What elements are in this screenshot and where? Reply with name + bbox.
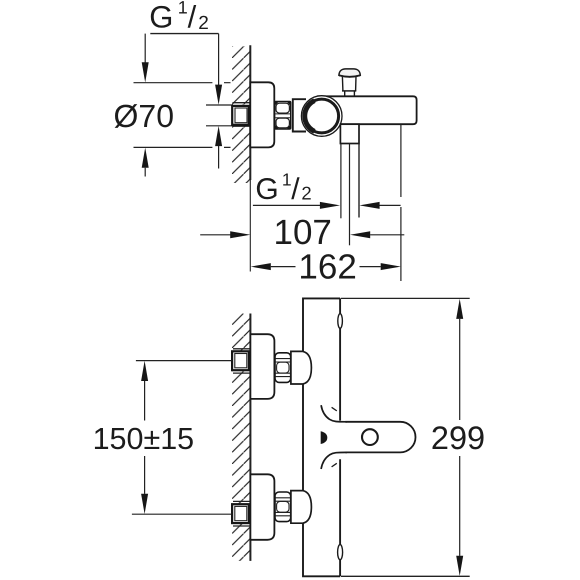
wall union square [232,106,249,125]
svg-text:2: 2 [301,183,311,204]
G1/2 (hose) dim line with arrows [253,202,401,209]
bath spout (front view U shape) [321,405,415,469]
dimension: G 1/2 (bottom of top drawing) text [255,170,311,206]
bottom inlet: washer lines [233,501,250,526]
dark temperature mark (D shape) [321,431,328,444]
svg-text:150±15: 150±15 [93,422,195,456]
top inlet: escutcheon [250,334,274,399]
top inlet: wall square [232,351,249,370]
dimension: G 1/2 (top) text [149,0,208,35]
top inlet: boss on body [291,351,312,384]
bottom inlet: union nut [275,492,291,522]
body (thermostat) [303,298,340,576]
svg-text:Ø70: Ø70 [114,98,174,134]
escutcheon (top drawing) [250,82,274,147]
diverter knob on top of body [339,69,360,96]
svg-text:/: / [291,173,300,206]
dimension: 299 [456,299,463,576]
hose outlet block under body [340,124,359,143]
spout tube [318,96,417,124]
bottom inlet: wall square [232,504,249,523]
G1/2 leader line [150,33,218,35]
dimension: 150±15 [132,361,232,515]
svg-text:G: G [255,173,278,206]
bottom inlet: boss on body [291,491,312,524]
bottom inlet: escutcheon [250,474,274,540]
union nut (top drawing) [275,102,291,130]
diverter knob circle on spout [362,429,378,445]
shower hose pipe lines [341,144,359,246]
G1/2 dim vertical line + arrows [215,34,222,169]
svg-text:/: / [188,0,197,35]
supply pipe stub behind wall [206,105,233,126]
svg-text:2: 2 [198,13,209,34]
Ø70 extension lines [134,83,231,148]
svg-text:1: 1 [282,170,292,190]
svg-text:G: G [149,0,173,35]
svg-text:162: 162 [298,248,356,287]
screw on body edge (bottom) [338,545,343,560]
wall union washer lines [233,103,251,127]
299 extension lines [341,298,470,576]
cartridge circle (temperature knob) [301,96,342,137]
wall (hatched) [232,314,250,561]
body flange between nut and cartridge circle [293,99,306,131]
svg-text:299: 299 [431,420,485,456]
svg-text:1: 1 [178,0,188,17]
top inlet: washer lines [233,349,250,373]
wall (hatched) [232,45,250,271]
Ø70 dim arrows [142,34,149,177]
screw on body edge (top) [338,314,343,329]
top inlet: union nut [275,353,291,383]
right extension line (spout outlet) [400,124,402,281]
svg-text:107: 107 [273,213,331,252]
